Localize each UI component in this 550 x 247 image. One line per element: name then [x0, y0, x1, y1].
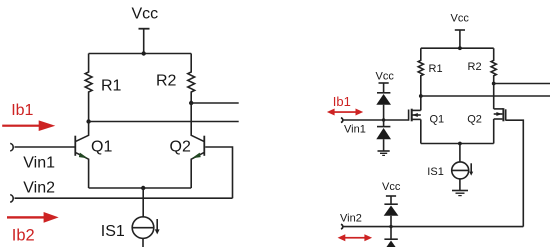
wire top rail (right circuit): [421, 47, 494, 49]
current arrow Ib1 (left, red): [2, 120, 55, 131]
resistor R1 (right circuit): [418, 48, 423, 96]
svg-text:Vin2: Vin2: [340, 213, 362, 225]
current source IS1 (right circuit): [452, 144, 474, 191]
power symbol Vcc (right, Vin1 clamp): [379, 83, 389, 92]
svg-text:R2: R2: [468, 61, 482, 73]
wire Q1 base / Vin1 (left): [15, 146, 75, 148]
transistor Q2 (right circuit, NMOS mirrored): [494, 84, 506, 144]
diode D3 (Vin2 to Vcc): [384, 204, 399, 226]
svg-text:Vcc: Vcc: [451, 12, 470, 24]
wire Q2 base to right side (left circuit): [205, 147, 232, 198]
junction Vcc/top rail (right): [458, 46, 462, 50]
junction R1 bottom / output line (right): [419, 94, 423, 98]
svg-text:Ib1: Ib1: [11, 102, 33, 119]
power symbol Vcc (right, Vin2 clamp): [386, 196, 396, 204]
transistor Q2 (left circuit, NPN mirrored): [191, 103, 204, 188]
ground symbol (Vin1 clamp): [378, 151, 390, 155]
junction R1 bottom / output line (left): [86, 119, 90, 123]
svg-text:Q2: Q2: [170, 138, 191, 155]
wire Vin2 (left circuit): [15, 197, 233, 199]
input port Vin1 (right): [341, 118, 343, 123]
current arrow Ib1 (right, red, double head): [327, 109, 363, 116]
current source IS1 (left circuit): [132, 188, 159, 247]
junction R2 bottom / output line (left): [189, 101, 193, 105]
svg-text:Vin1: Vin1: [344, 123, 366, 135]
current arrow Ib2 (right, red, double head): [338, 234, 373, 241]
junction source rail / IS1 (right): [458, 142, 462, 146]
wire output line lower (right circuit): [421, 95, 550, 97]
svg-text:R1: R1: [429, 63, 443, 75]
junction R2 bottom / output line (right): [492, 82, 496, 86]
svg-text:IS1: IS1: [427, 166, 444, 178]
input port Vin1 (left): [10, 143, 13, 151]
svg-text:Vin2: Vin2: [23, 180, 55, 197]
wire top rail (left circuit): [89, 53, 192, 55]
wire Q2 gate to Vin2 (right circuit): [506, 120, 524, 226]
transistor Q1 (right circuit, NMOS): [409, 96, 421, 144]
wire Vin2 (right circuit): [343, 226, 523, 228]
power symbol Vcc (left circuit): [139, 29, 150, 54]
wire Vin1 to Q1 gate (right circuit): [343, 119, 408, 121]
svg-text:Vin1: Vin1: [23, 155, 55, 172]
resistor R1 (left circuit): [85, 54, 92, 122]
diode D2 (gnd to Vin1): [376, 120, 391, 151]
svg-text:Q1: Q1: [430, 114, 445, 126]
junction emitter rail / IS1 (left): [141, 186, 145, 190]
wire output line upper (right circuit): [494, 83, 550, 85]
wire source rail (right circuit): [421, 143, 494, 145]
input port Vin2 (right): [341, 224, 343, 229]
diode D4 (below Vin2, cut off): [384, 227, 399, 247]
svg-text:Ib2: Ib2: [12, 226, 35, 244]
wire output line upper (left circuit): [191, 102, 239, 104]
current arrow Ib2 (left, red): [7, 212, 59, 223]
svg-text:Vcc: Vcc: [132, 5, 159, 22]
svg-text:Vcc: Vcc: [382, 181, 401, 193]
svg-text:Ib1: Ib1: [333, 94, 351, 109]
svg-text:Vcc: Vcc: [376, 71, 395, 83]
resistor R2 (right circuit): [491, 48, 496, 83]
input port Vin2 (left): [10, 195, 13, 203]
transistor Q1 (left circuit, NPN): [75, 122, 88, 189]
wire emitter rail (left circuit): [89, 187, 192, 189]
junction Vcc/top rail (left): [142, 51, 146, 55]
power symbol Vcc (right circuit top): [455, 30, 465, 48]
resistor R2 (left circuit): [188, 54, 195, 104]
ground symbol (right IS1): [452, 191, 468, 196]
svg-text:IS1: IS1: [101, 223, 125, 240]
svg-text:Q2: Q2: [467, 113, 482, 125]
wire output line lower (left circuit): [89, 121, 239, 123]
diode D1 (Vin1 to Vcc): [376, 93, 391, 120]
junction D3/D4 on Vin2 wire: [389, 225, 392, 228]
svg-text:Q1: Q1: [91, 138, 112, 155]
junction D1/D2 on Vin1 wire: [382, 118, 385, 121]
svg-text:R1: R1: [101, 78, 122, 95]
svg-text:R2: R2: [156, 73, 177, 90]
